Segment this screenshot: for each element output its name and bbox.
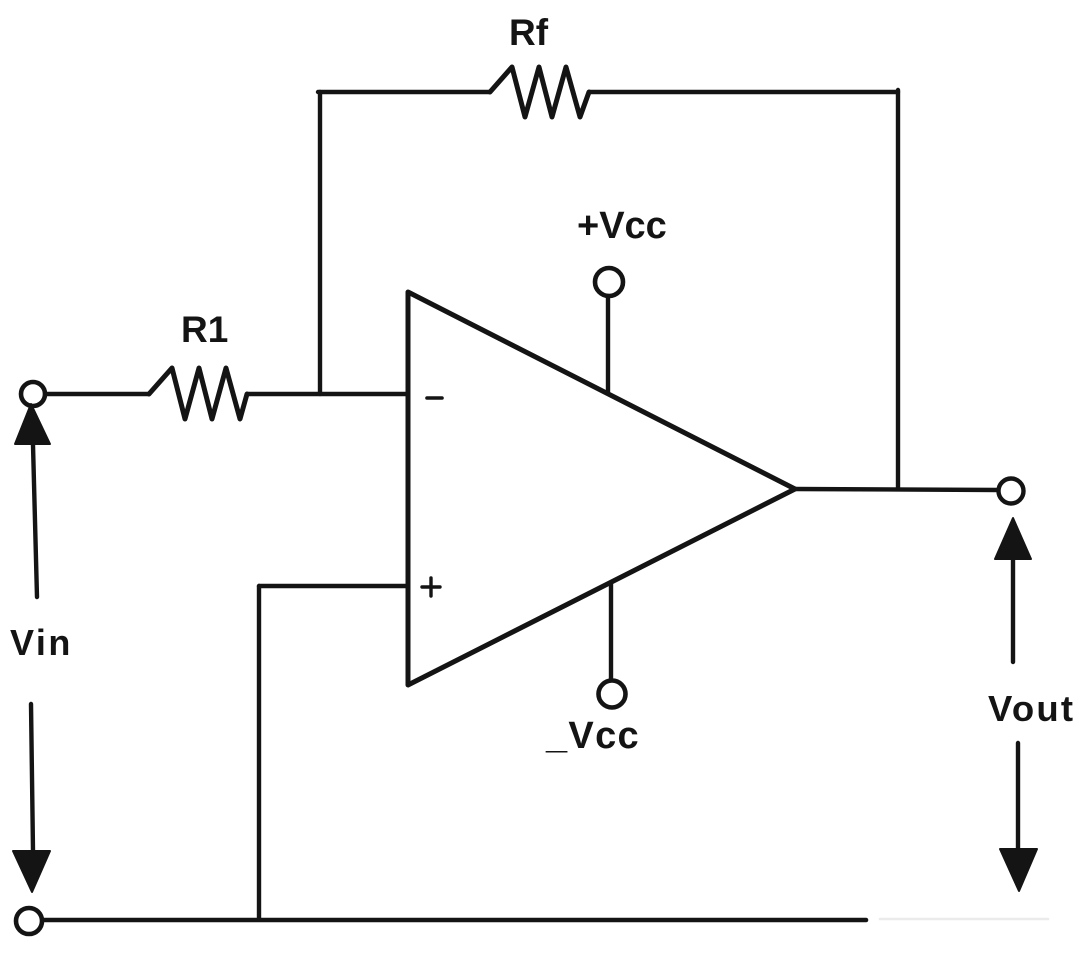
wire -Vcc supply: [609, 583, 613, 681]
resistor R1: [149, 368, 247, 419]
wire input left segment (Vin terminal to R1): [46, 392, 149, 396]
svg-text:Vout: Vout: [988, 688, 1075, 729]
svg-text:Rf: Rf: [509, 12, 549, 53]
wire feedback top right segment: [589, 90, 898, 94]
op-amp U1: [408, 292, 795, 685]
wire +Vcc supply: [606, 296, 610, 392]
resistor Rf: [490, 67, 589, 117]
svg-text:+Vcc: +Vcc: [577, 205, 667, 247]
wire output (op-amp apex to output terminal): [795, 489, 999, 490]
node Vin input terminal: [21, 382, 45, 406]
node ground terminal bottom left: [16, 908, 42, 934]
wire bottom ground rail: [43, 918, 866, 923]
node +Vcc terminal: [595, 268, 623, 296]
arrow Vout up (tail): [1011, 559, 1015, 662]
wire bottom rail faded continuation: [880, 918, 1048, 921]
node -Vcc terminal: [599, 681, 626, 708]
op-amp non-inverting input symbol (plus): [422, 585, 440, 588]
arrow Vin up (tail): [33, 445, 37, 597]
arrow Vin up (head): [15, 404, 50, 444]
op-amp inverting input symbol (minus): [427, 396, 442, 400]
svg-text:Vin: Vin: [10, 622, 73, 663]
svg-text:R1: R1: [181, 309, 228, 350]
wire R1 to inverting input (through feedback junction): [247, 392, 407, 396]
arrow Vin down (head): [13, 851, 50, 892]
arrow Vout down (tail): [1016, 743, 1020, 850]
wire feedback top left segment: [318, 90, 490, 94]
node Vout output terminal: [999, 479, 1024, 504]
wire non-inverting input vertical to ground rail: [257, 586, 261, 918]
arrow Vin down (tail): [31, 704, 33, 851]
wire feedback right vertical: [896, 90, 900, 489]
arrow Vout down (head): [1000, 849, 1037, 891]
wire feedback left vertical: [318, 92, 322, 394]
arrow Vout up (head): [995, 518, 1031, 559]
svg-text:_Vcc: _Vcc: [545, 715, 640, 757]
wire non-inverting input horizontal: [259, 584, 407, 588]
